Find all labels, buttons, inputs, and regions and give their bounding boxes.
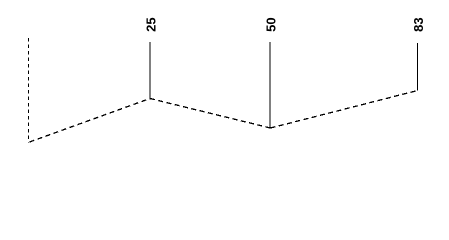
left vertical dashed reference line xyxy=(28,38,30,143)
svg-text:50: 50 xyxy=(264,17,279,31)
svg-text:83: 83 xyxy=(411,17,426,31)
dashed profile polyline segment 3 xyxy=(271,91,418,129)
marker line 25 xyxy=(149,42,151,99)
svg-text:25: 25 xyxy=(144,17,159,31)
dashed profile polyline segment 2 xyxy=(150,99,271,129)
marker line 83 xyxy=(416,43,418,91)
profile chart xyxy=(0,0,449,162)
marker line 50 xyxy=(269,42,271,128)
dashed profile polyline segment 1 xyxy=(30,99,151,143)
